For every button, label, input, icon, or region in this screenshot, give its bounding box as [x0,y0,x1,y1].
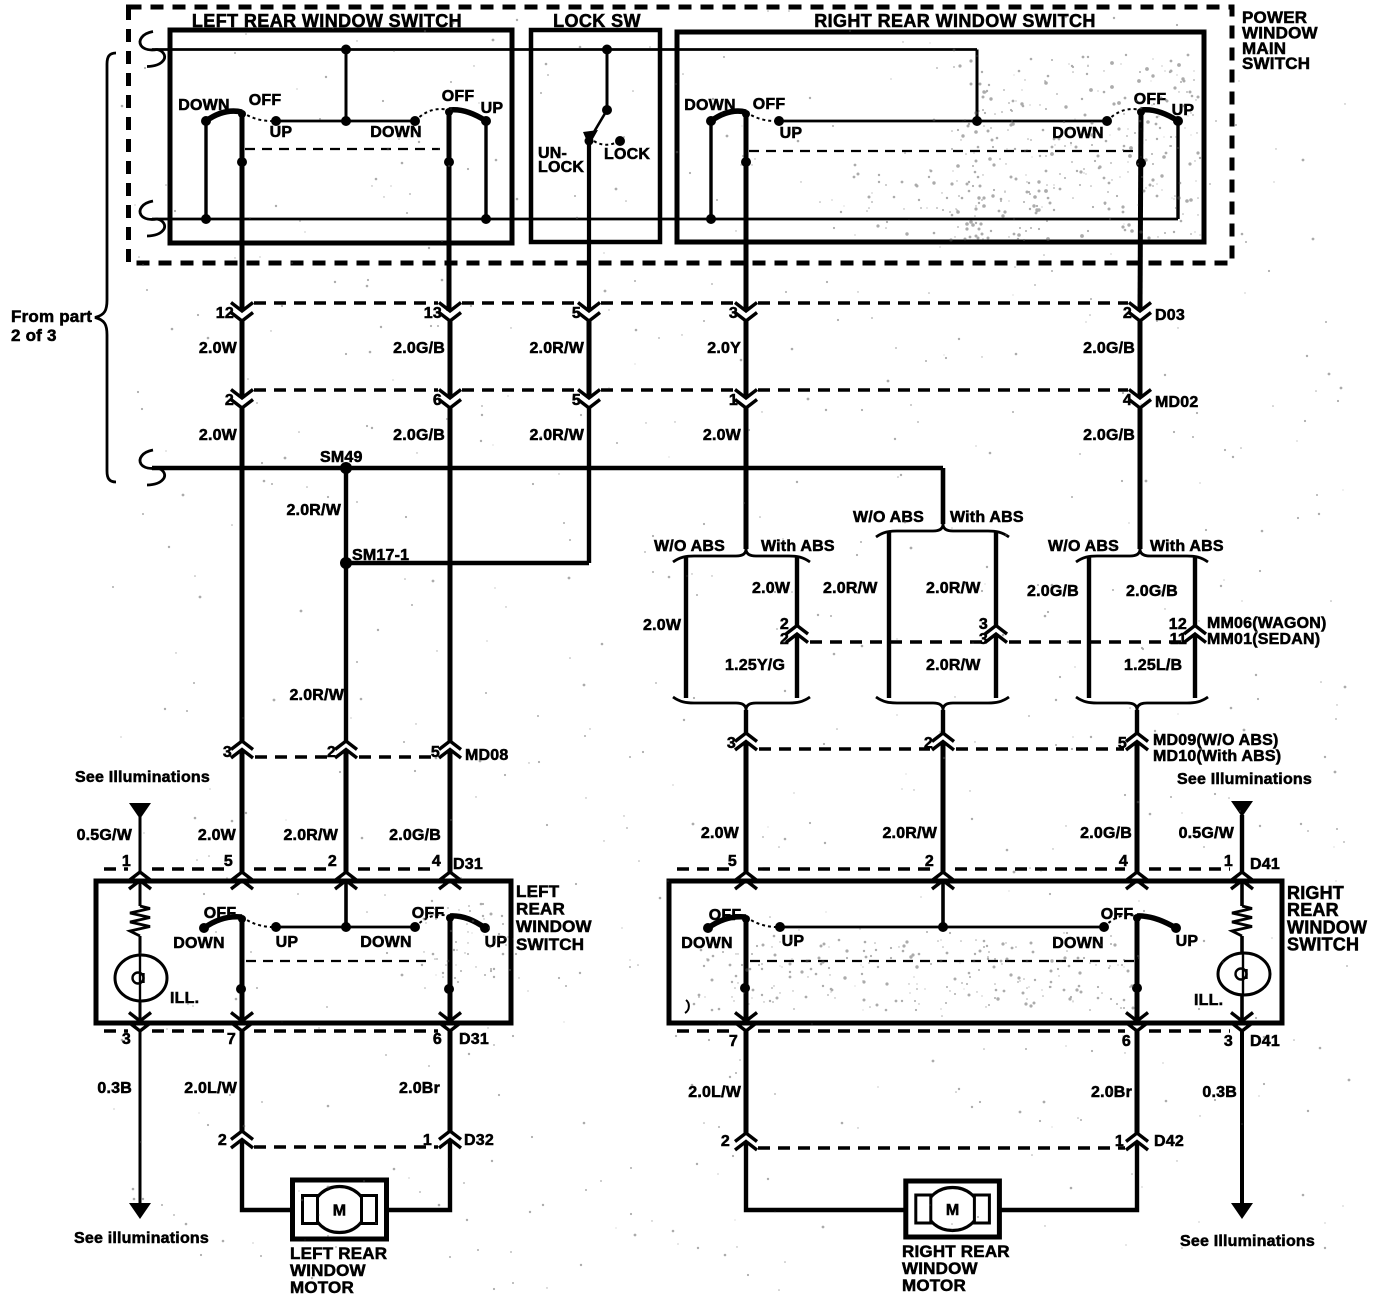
svg-text:UP: UP [782,933,805,950]
svg-text:1: 1 [122,853,131,870]
svg-text:3: 3 [729,305,738,322]
svg-text:2.0R/W: 2.0R/W [283,827,338,844]
svg-text:2.0G/B: 2.0G/B [393,340,445,357]
svg-text:5: 5 [1118,735,1127,752]
svg-text:M: M [946,1202,960,1219]
svg-text:2.0G/B: 2.0G/B [1080,825,1132,842]
svg-text:7: 7 [227,1031,236,1048]
svg-text:3: 3 [979,631,988,648]
svg-text:4: 4 [1119,853,1128,870]
svg-text:2: 2 [327,744,336,761]
svg-text:5: 5 [572,305,581,322]
svg-text:OFF: OFF [204,905,237,922]
svg-text:WINDOW: WINDOW [516,917,593,936]
svg-text:2: 2 [924,735,933,752]
svg-text:2.0R/W: 2.0R/W [529,427,584,444]
svg-text:MM01(SEDAN): MM01(SEDAN) [1207,631,1320,648]
svg-text:2.0W: 2.0W [199,427,238,444]
svg-text:2.0R/W: 2.0R/W [882,825,937,842]
svg-text:LOCK: LOCK [604,146,650,163]
svg-text:UP: UP [276,934,299,951]
svg-text:See Illuminations: See Illuminations [1180,1233,1315,1250]
svg-text:1: 1 [1224,853,1233,870]
svg-text:LEFT: LEFT [516,882,560,901]
svg-text:2: 2 [1123,305,1132,322]
svg-text:D32: D32 [464,1132,494,1149]
svg-text:REAR: REAR [516,900,565,919]
svg-text:6: 6 [433,392,442,409]
svg-text:With ABS: With ABS [1150,538,1224,555]
svg-text:2.0R/W: 2.0R/W [286,502,341,519]
svg-text:D42: D42 [1154,1133,1184,1150]
svg-text:2.0G/B: 2.0G/B [1083,340,1135,357]
svg-text:2.0R/W: 2.0R/W [289,687,344,704]
svg-text:ILL.: ILL. [1194,992,1223,1009]
svg-text:OFF: OFF [412,905,445,922]
svg-text:ILL.: ILL. [170,990,199,1007]
svg-text:12: 12 [216,305,234,322]
svg-text:0.5G/W: 0.5G/W [1179,825,1235,842]
svg-text:2.0W: 2.0W [752,580,791,597]
svg-text:3: 3 [727,735,736,752]
svg-text:With ABS: With ABS [761,538,835,555]
svg-text:MOTOR: MOTOR [902,1276,966,1294]
svg-text:See Illuminations: See Illuminations [1177,771,1312,788]
svg-text:See Illuminations: See Illuminations [75,769,210,786]
svg-text:DOWN: DOWN [370,124,421,141]
svg-text:3: 3 [1224,1033,1233,1050]
svg-text:6: 6 [433,1031,442,1048]
svg-text:2.0R/W: 2.0R/W [926,657,981,674]
svg-text:2.0W: 2.0W [703,427,742,444]
svg-text:3: 3 [122,1031,131,1048]
svg-text:1: 1 [1115,1133,1124,1150]
svg-text:OFF: OFF [753,96,786,113]
svg-text:MD02: MD02 [1155,394,1198,411]
svg-text:2.0W: 2.0W [198,827,237,844]
svg-text:5: 5 [224,853,233,870]
svg-text:5: 5 [728,853,737,870]
svg-text:4: 4 [1123,392,1132,409]
svg-text:2.0Y: 2.0Y [707,340,741,357]
svg-text:W/O ABS: W/O ABS [853,509,924,526]
svg-text:W/O ABS: W/O ABS [654,538,725,555]
svg-text:2.0W: 2.0W [701,825,740,842]
svg-text:OFF: OFF [442,88,475,105]
svg-text:2: 2 [225,392,234,409]
svg-text:7: 7 [729,1033,738,1050]
svg-text:D31: D31 [453,856,483,873]
svg-text:2: 2 [925,853,934,870]
svg-text:DOWN: DOWN [1052,935,1103,952]
svg-text:2.0R/W: 2.0R/W [823,580,878,597]
svg-text:UP: UP [1176,933,1199,950]
svg-text:OFF: OFF [709,907,742,924]
svg-text:DOWN: DOWN [681,935,732,952]
svg-text:2.0G/B: 2.0G/B [389,827,441,844]
svg-text:1: 1 [729,392,738,409]
svg-text:13: 13 [424,305,442,322]
svg-text:D31: D31 [459,1031,489,1048]
svg-text:2.0R/W: 2.0R/W [926,580,981,597]
svg-text:LOCK: LOCK [538,159,584,176]
svg-text:2.0L/W: 2.0L/W [688,1084,741,1101]
svg-text:UP: UP [481,100,504,117]
svg-text:2.0G/B: 2.0G/B [393,427,445,444]
svg-text:1.25Y/G: 1.25Y/G [725,657,785,674]
svg-text:2: 2 [780,631,789,648]
svg-text:3: 3 [223,744,232,761]
svg-text:0.3B: 0.3B [97,1080,132,1097]
svg-text:UP: UP [485,934,508,951]
svg-text:SWITCH: SWITCH [516,935,584,954]
svg-text:MD09(W/O ABS): MD09(W/O ABS) [1153,732,1279,749]
svg-text:5: 5 [572,392,581,409]
svg-text:UP: UP [780,125,803,142]
svg-text:DOWN: DOWN [178,97,229,114]
svg-text:RIGHT REAR WINDOW SWITCH: RIGHT REAR WINDOW SWITCH [814,11,1096,31]
svg-text:2 of 3: 2 of 3 [11,326,57,345]
svg-text:2.0G/B: 2.0G/B [1083,427,1135,444]
svg-text:DOWN: DOWN [684,97,735,114]
svg-text:DOWN: DOWN [360,934,411,951]
svg-text:MD10(With ABS): MD10(With ABS) [1153,748,1281,765]
svg-text:From part: From part [11,307,92,326]
svg-text:2: 2 [328,853,337,870]
svg-text:1: 1 [423,1132,432,1149]
svg-text:OFF: OFF [249,92,282,109]
svg-text:1.25L/B: 1.25L/B [1124,657,1182,674]
svg-text:D03: D03 [1155,307,1185,324]
svg-text:W/O ABS: W/O ABS [1048,538,1119,555]
svg-text:SM49: SM49 [320,449,363,466]
svg-text:2.0R/W: 2.0R/W [529,340,584,357]
svg-text:OFF: OFF [1101,906,1134,923]
svg-text:SWITCH: SWITCH [1287,935,1359,955]
svg-text:2.0W: 2.0W [199,340,238,357]
svg-text:D41: D41 [1250,1033,1280,1050]
svg-text:OFF: OFF [1134,91,1167,108]
svg-text:2: 2 [218,1132,227,1149]
svg-text:0.5G/W: 0.5G/W [77,827,133,844]
svg-text:SWITCH: SWITCH [1242,54,1310,73]
svg-text:M: M [333,1203,347,1220]
svg-text:MD08: MD08 [465,747,508,764]
svg-text:4: 4 [432,853,441,870]
svg-text:D41: D41 [1250,856,1280,873]
svg-text:See illuminations: See illuminations [74,1230,209,1247]
svg-text:2.0W: 2.0W [643,617,682,634]
svg-text:UP: UP [1172,102,1195,119]
svg-text:2.0G/B: 2.0G/B [1126,583,1178,600]
svg-text:2: 2 [721,1133,730,1150]
svg-text:UP: UP [270,124,293,141]
svg-text:MOTOR: MOTOR [290,1278,354,1294]
svg-text:With ABS: With ABS [950,509,1024,526]
svg-text:MM06(WAGON): MM06(WAGON) [1207,615,1327,632]
svg-text:11: 11 [1170,631,1187,648]
svg-text:DOWN: DOWN [173,935,224,952]
svg-text:2.0Br: 2.0Br [399,1080,440,1097]
